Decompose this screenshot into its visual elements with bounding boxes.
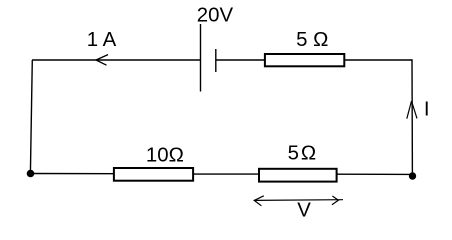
wire: right vertical rail <box>411 59 413 176</box>
node: bottom-left junction dot <box>27 170 35 178</box>
wire: bottom 5Ω resistor to right node <box>338 173 413 175</box>
battery short plate (negative) <box>215 49 217 72</box>
wire: between 10Ω and bottom 5Ω resistors <box>194 173 260 175</box>
wire: top resistor to top-right corner <box>345 59 413 61</box>
svg-text:1 A: 1 A <box>87 29 117 51</box>
svg-text:20V: 20V <box>197 5 234 27</box>
svg-text:V: V <box>297 199 311 221</box>
resistor 10Ω bottom-left (box) <box>114 168 193 181</box>
svg-text:I: I <box>424 99 430 121</box>
svg-text:10Ω: 10Ω <box>146 145 184 167</box>
node: bottom-right junction dot <box>409 172 416 179</box>
resistor 5Ω bottom-right (box) <box>259 169 337 182</box>
svg-text:5Ω: 5Ω <box>288 143 316 165</box>
wire: left vertical rail <box>30 60 32 174</box>
svg-text:5 Ω: 5 Ω <box>296 29 328 51</box>
battery long plate (positive) <box>200 24 202 92</box>
current arrow I (up-pointing arrowhead on right rail) <box>407 101 417 119</box>
wire: battery short plate to top resistor <box>216 59 265 61</box>
wire: top-left horizontal from left corner to battery long plate <box>32 59 200 61</box>
current arrow 1 A (left-pointing arrowhead on top wire) <box>96 55 108 66</box>
voltage arrow V (double-headed arrow under bottom 5Ω resistor) <box>254 196 343 206</box>
resistor 5Ω top (box) <box>265 54 344 66</box>
wire: bottom rail, left node to 10Ω resistor <box>31 173 114 175</box>
